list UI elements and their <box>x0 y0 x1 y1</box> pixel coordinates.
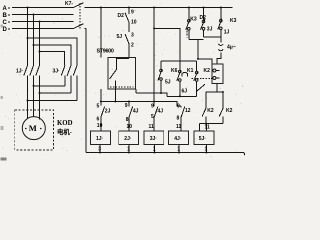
wire crossover W2 <box>34 45 71 66</box>
label 2J contact <box>105 109 111 115</box>
svg-text:3: 3 <box>98 146 101 152</box>
wire button feed <box>161 60 197 62</box>
wire timer bottom stub <box>114 89 116 102</box>
contact 5J blade <box>125 34 129 44</box>
coil 4J box <box>168 131 188 144</box>
svg-text:10: 10 <box>131 19 137 25</box>
label terminal 11 above 5J <box>205 125 211 131</box>
wire feed line coils <box>101 102 181 107</box>
wire K1 coil bottom <box>216 84 218 93</box>
junction connector3 <box>27 100 29 102</box>
wire motor lead 1 <box>27 101 29 120</box>
motor name label KOD <box>57 120 73 127</box>
junction mid rail top <box>153 7 155 9</box>
wire bus end hook <box>244 153 245 156</box>
contact 3J aux <box>201 8 206 38</box>
wire C drop <box>39 22 41 66</box>
svg-text:5J: 5J <box>165 79 171 85</box>
svg-text:5J: 5J <box>117 34 123 40</box>
wire rail below box <box>100 89 102 106</box>
contact 6J blade <box>196 84 205 92</box>
wire capacitor to K1 coil <box>217 52 221 64</box>
wire L1 <box>136 93 167 96</box>
label terminal 8 b2 <box>126 117 129 123</box>
contact 1J pole 3 <box>36 66 40 94</box>
wire 4J coil to bus <box>178 145 180 154</box>
switch K7 label <box>65 1 73 7</box>
svg-text:1J·: 1J· <box>16 68 24 74</box>
label terminal 12 b4 <box>185 108 191 114</box>
svg-text:2J·: 2J· <box>124 136 132 142</box>
svg-text:9: 9 <box>151 104 154 110</box>
label terminal 9 <box>131 9 134 15</box>
contact 3J pole 2 <box>67 66 71 94</box>
wire motor lead 3 <box>39 93 41 120</box>
svg-text:M: M <box>29 123 37 133</box>
node A label <box>3 6 11 12</box>
svg-text:KOD: KOD <box>57 120 73 127</box>
svg-text:1: 1 <box>127 146 130 152</box>
junction feed a <box>100 101 102 103</box>
label 4J contact <box>133 109 139 115</box>
svg-text:4J: 4J <box>133 109 139 115</box>
wire D to left rail <box>85 28 87 30</box>
label D2 <box>118 13 125 19</box>
button mid <box>177 70 181 96</box>
contactor 1J label <box>16 68 24 74</box>
svg-text:3J: 3J <box>207 27 213 33</box>
junction B tap <box>33 14 35 16</box>
timer box ST9600 <box>108 58 136 89</box>
wire 1J coil to bus <box>99 145 101 154</box>
svg-text:2J: 2J <box>105 109 111 115</box>
coil 1J box <box>90 131 110 144</box>
wire 5J coil to bus <box>205 145 207 154</box>
wire K2 merge <box>200 123 223 125</box>
label K2 right <box>226 108 233 114</box>
coil 2J box <box>119 131 139 144</box>
contactor 3J label <box>53 68 61 74</box>
switch K7 pole D blade <box>74 24 84 29</box>
label 5J <box>117 34 123 40</box>
junction W2 <box>33 44 35 46</box>
svg-text:K2: K2 <box>207 108 214 114</box>
label K3 left <box>190 17 197 23</box>
node D label <box>3 27 11 33</box>
junction connector1 <box>33 85 35 87</box>
label 6J <box>182 89 188 95</box>
wire phase C <box>12 21 74 23</box>
motor M1 circle <box>22 117 45 140</box>
wire connector1 <box>34 85 66 87</box>
switch K7 pole A blade <box>74 3 84 8</box>
label K3 right <box>230 18 237 24</box>
switch K7 gang dashed link <box>79 3 81 29</box>
label terminal 2 <box>131 42 134 48</box>
label terminal under 2J <box>127 146 130 152</box>
label terminal 9 b4 <box>177 103 180 109</box>
label terminal 6 <box>97 116 100 122</box>
svg-text:9: 9 <box>125 103 128 109</box>
wire control rail from A <box>100 8 102 58</box>
label terminal 3 <box>131 32 134 38</box>
coil 5J box <box>194 131 214 144</box>
junction feed d <box>153 101 155 103</box>
mark small dash <box>186 31 188 38</box>
svg-text:1: 1 <box>205 146 208 152</box>
label terminal 10 <box>131 19 137 25</box>
junction connector2 <box>39 92 41 94</box>
label terminal 10 above 2J <box>127 124 133 130</box>
label terminal under 4J <box>177 146 180 152</box>
timer inner link dashed <box>110 86 134 88</box>
contact 4J above 2J coil <box>129 102 133 132</box>
wire connector3 <box>28 100 78 102</box>
contact bracket <box>182 72 188 76</box>
svg-text:1J: 1J <box>224 30 230 36</box>
wire aux into K1 top <box>198 40 212 64</box>
wire connector2 <box>40 92 71 94</box>
wire crossover W3 <box>40 52 65 66</box>
wire branch2 bottom <box>204 36 221 38</box>
wire phase B <box>12 14 74 16</box>
button K3 right <box>218 8 222 43</box>
label terminal 5 b3 <box>151 114 154 120</box>
svg-text:1: 1 <box>177 146 180 152</box>
svg-text:6J: 6J <box>182 89 188 95</box>
wire timer top inner <box>117 57 129 59</box>
label terminal 5 <box>97 103 100 109</box>
wire relay rail lower <box>128 44 130 58</box>
svg-text:4J·: 4J· <box>174 136 182 142</box>
relay K1 coil box <box>212 64 223 84</box>
svg-text:11: 11 <box>205 125 211 131</box>
svg-text:D2: D2 <box>118 13 125 19</box>
wire L2 <box>167 95 197 97</box>
wire relay rail upper <box>128 8 130 15</box>
contact above 4J coil <box>181 106 185 131</box>
svg-text:11: 11 <box>176 124 182 130</box>
capacitor C1 <box>218 44 223 51</box>
contact K2 right <box>219 92 223 124</box>
wire 3J coil to bus <box>154 145 156 154</box>
label ST9600 <box>97 48 114 54</box>
svg-text:D: D <box>3 27 8 33</box>
svg-text:8: 8 <box>126 117 129 123</box>
node C label <box>3 20 11 26</box>
svg-text:3: 3 <box>131 32 134 38</box>
svg-text:C: C <box>3 20 8 26</box>
label terminal 9 b2 <box>125 103 128 109</box>
wire 2J coil to bus <box>128 145 130 154</box>
label terminal 9 b3 <box>151 104 154 110</box>
svg-text:5: 5 <box>97 103 100 109</box>
junction branch2 top <box>203 7 205 9</box>
contact 1J pole 1 <box>24 66 28 101</box>
wire mid rail <box>153 8 155 102</box>
junction branch3 top <box>220 7 222 9</box>
wire crossover W1 <box>28 38 78 66</box>
button mid stub <box>179 61 181 70</box>
wire left rail <box>85 29 87 153</box>
motor name label dianji <box>57 127 72 136</box>
svg-text:ST9600: ST9600 <box>97 48 114 54</box>
contact 1J pole 2 <box>30 66 34 86</box>
junction A tap <box>27 7 29 9</box>
label D2 right <box>200 15 207 21</box>
button K6 stub <box>160 61 162 69</box>
node B label <box>3 13 11 19</box>
button K1 <box>194 71 198 96</box>
wire phase D <box>12 28 74 30</box>
junction branch1 top <box>188 7 190 9</box>
wire branch1 bottom <box>189 39 204 41</box>
label 5J mid <box>165 79 171 85</box>
svg-text:1: 1 <box>153 146 156 152</box>
contact 3J pole 3 <box>73 66 77 101</box>
scan tick left edge 3 <box>1 126 4 130</box>
junction L2 a <box>160 92 162 94</box>
junction W3 <box>39 51 41 53</box>
svg-text:12: 12 <box>185 108 191 114</box>
wire phase A <box>12 7 233 9</box>
junction A rail top <box>100 7 102 9</box>
svg-text:9: 9 <box>131 9 134 15</box>
svg-text:K3: K3 <box>230 18 237 24</box>
scan smudge bottom left <box>1 158 7 161</box>
junction feed c <box>128 101 130 103</box>
svg-text:2: 2 <box>131 42 134 48</box>
label terminal under 3J <box>153 146 156 152</box>
svg-text:D2: D2 <box>200 15 207 21</box>
svg-text:K1: K1 <box>187 68 194 74</box>
label K2 left <box>207 108 214 114</box>
label terminal under 1J <box>98 146 101 152</box>
label K6 <box>171 68 178 74</box>
button K6 <box>158 69 162 93</box>
svg-text:5J·: 5J· <box>199 136 207 142</box>
label K1 <box>204 68 211 74</box>
svg-text:6: 6 <box>97 116 100 122</box>
label terminal under 5J <box>205 146 208 152</box>
label 1J aux <box>224 30 230 36</box>
contact K2 left <box>202 92 206 124</box>
svg-text:K2: K2 <box>204 68 211 74</box>
button K3 left <box>186 8 190 40</box>
svg-text:K3: K3 <box>190 17 197 23</box>
svg-text:4μ~: 4μ~ <box>227 44 236 50</box>
coil 3J box <box>144 131 164 144</box>
svg-text:A: A <box>3 6 8 12</box>
wire bottom bus <box>86 152 244 154</box>
svg-text:K7-: K7- <box>65 1 73 7</box>
label terminal 11 above 4J <box>176 124 182 130</box>
wire motor lead 2 <box>33 86 35 117</box>
svg-text:10: 10 <box>97 123 103 129</box>
contact above 3J coil <box>154 102 158 132</box>
wire A drop <box>27 8 29 66</box>
junction feed b <box>114 101 116 103</box>
button K1 stub <box>196 61 198 71</box>
wire B drop <box>33 15 35 66</box>
motor enclosure dashed box <box>15 110 54 150</box>
svg-text:B: B <box>3 13 8 19</box>
label 3J aux <box>207 27 213 33</box>
svg-text:8: 8 <box>177 115 180 121</box>
label terminal 11 above 3J <box>149 124 155 130</box>
svg-text:4J: 4J <box>158 109 164 115</box>
svg-text:K2: K2 <box>226 108 233 114</box>
label K1 mid <box>187 68 194 74</box>
scan tick left edge 2 <box>1 96 4 99</box>
svg-text:5: 5 <box>151 114 154 120</box>
contact 2J <box>101 107 105 132</box>
junction K2 feed <box>222 91 224 93</box>
junction tap <box>153 27 155 29</box>
wire stub into 5J coil <box>200 124 207 131</box>
junction C tap <box>39 21 41 23</box>
wire box corner drop <box>135 89 137 93</box>
contact D2 blade <box>125 13 129 22</box>
svg-text:3J·: 3J· <box>150 136 158 142</box>
scan tick left edge 1 <box>1 25 4 28</box>
label terminal 10 above 1J <box>97 123 103 129</box>
contact 3J pole 1 <box>61 66 65 86</box>
junction 5J stub <box>205 123 207 125</box>
svg-text:11: 11 <box>149 124 155 130</box>
svg-text:K6: K6 <box>171 68 178 74</box>
svg-text:1J·: 1J· <box>96 136 104 142</box>
wire K2 feed <box>205 91 223 93</box>
label 4J contact b3 <box>158 109 164 115</box>
svg-text:3J·: 3J· <box>53 68 61 74</box>
wire relay rail mid <box>128 22 130 32</box>
junction relay rail top <box>128 7 130 9</box>
svg-text:电机-: 电机- <box>57 127 72 136</box>
timer inner switch <box>110 58 117 89</box>
svg-text:10: 10 <box>127 124 133 130</box>
scan speckle noise <box>2 3 243 158</box>
wire tap to buttons <box>154 28 180 61</box>
junction aux K1 <box>197 58 199 60</box>
junction W1 <box>27 37 29 39</box>
label capacitor value <box>227 44 236 50</box>
label terminal 8 b4 <box>177 115 180 121</box>
junction L2 b <box>179 95 181 97</box>
mech link dashed K1 <box>192 78 212 80</box>
